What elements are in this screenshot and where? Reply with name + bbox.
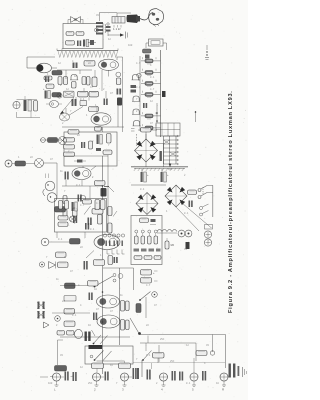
resistor R35 (94, 260, 105, 266)
wire stub a (65, 70, 67, 79)
resistor R39 (88, 281, 99, 287)
transistor Q42 (132, 96, 140, 101)
wire to jack (58, 340, 64, 365)
wire rail 186 (62, 185, 109, 188)
transistor Q43 (132, 109, 140, 114)
capacitor C75 (147, 363, 152, 380)
terminal marks under AC inlet (113, 27, 120, 31)
capacitor C1 (73, 63, 78, 69)
transistor Q7 (72, 166, 96, 180)
wire stub g (88, 97, 90, 101)
resistor R1 (52, 71, 62, 76)
wire stub p (89, 186, 91, 199)
terminal row (134, 249, 161, 252)
wire stub q (56, 232, 58, 238)
terminal end stub (243, 367, 247, 377)
resistor R9 (72, 99, 87, 106)
wire stub l (65, 108, 67, 113)
transistor Q12 (power) (97, 295, 120, 308)
mains wall plug P1 (149, 9, 164, 27)
transistor Q8 (80, 195, 85, 200)
tone board outline (55, 199, 107, 233)
wire out rail 2 (52, 312, 90, 314)
wire bridge diagonal feed 2 (176, 207, 199, 231)
bridge rectifier B1 (135, 139, 158, 162)
svg-text:0.1: 0.1 (136, 86, 141, 89)
transistor Q44 (133, 121, 141, 126)
wire stub m (82, 166, 84, 168)
wire stub o (65, 180, 67, 186)
switch S8 in box (90, 351, 111, 361)
transistor Q11 (41, 235, 120, 250)
fuse F1 (135, 230, 139, 244)
ground symbols (55, 381, 227, 387)
resistor R20 (73, 208, 78, 217)
capacitor C6 (81, 142, 85, 148)
wire stub c (94, 70, 96, 78)
capacitor C31 (145, 55, 150, 59)
resistor R24 (48, 138, 58, 143)
component value labels (noise) (18, 14, 219, 385)
svg-text:0.1: 0.1 (76, 184, 81, 187)
jack labels (54, 388, 225, 392)
resistor R62a (52, 93, 61, 98)
resistor R5 (82, 77, 90, 86)
capacitor C8 (electrolytic) (101, 186, 115, 197)
wire row top (97, 361, 226, 363)
resistor R19 (63, 196, 67, 218)
jack J12 (121, 373, 129, 381)
diode/resistor pair D41 R41 (141, 69, 161, 76)
svg-text:0.1: 0.1 (90, 228, 95, 231)
capacitor C79 (electrolytic) (229, 364, 240, 378)
switch S4 (130, 318, 141, 335)
wire run to outlet (140, 336, 196, 362)
label plate (89, 345, 103, 349)
svg-text:0.1: 0.1 (140, 188, 145, 191)
resistor R18 (95, 181, 106, 186)
capacitor C11 (electrolytic) (72, 202, 78, 211)
resistor R3 (44, 76, 52, 80)
resistor R17 (103, 150, 112, 155)
transistor Q5 (116, 72, 121, 94)
capacitor C51 (160, 151, 162, 161)
resistor R101 (66, 32, 74, 36)
capacitor C14 (84, 261, 88, 270)
wire PSU rail (131, 184, 166, 186)
wire stub n (81, 180, 83, 186)
capacitor C61 (136, 304, 141, 313)
lamp L3 (55, 316, 61, 322)
wire rail (57, 69, 92, 71)
capacitor C77 (179, 372, 183, 381)
svg-text:100: 100 (48, 382, 53, 385)
wire right bus 2 (118, 268, 123, 345)
jack J15 (220, 373, 228, 381)
transistor Q9 (43, 181, 55, 196)
diode D45 (131, 85, 137, 93)
capacitor C53 (electrolytic) (161, 169, 170, 182)
capacitor C10 (85, 223, 89, 230)
wire stub d (108, 70, 110, 77)
wire rail out (60, 285, 88, 287)
resistor R25 (15, 161, 26, 166)
svg-text:0.1: 0.1 (184, 212, 189, 215)
svg-text:2SC: 2SC (170, 360, 175, 363)
resistor R10 (89, 107, 99, 112)
transformer T1 windings (164, 135, 179, 165)
varistor blob (186, 242, 190, 249)
choke L1 (157, 230, 177, 234)
transistor Q13 (power) (97, 315, 120, 328)
wire bottom rail (60, 336, 130, 338)
wire bus mid (107, 155, 109, 232)
bus wire (ladder left rail) (139, 56, 141, 131)
bridge rectifier B2 (165, 185, 187, 207)
mains switch S1 (198, 186, 213, 199)
capacitor C76 (172, 371, 176, 381)
capacitor C22 (45, 77, 49, 83)
capacitor C3 (104, 99, 108, 106)
label marks (131, 129, 135, 132)
transistor Q14 (46, 101, 62, 108)
capacitor C72 (71, 372, 77, 381)
diode D1 (96, 148, 101, 151)
resistor R29 (101, 200, 106, 210)
wire input bus (27, 57, 55, 68)
speaker relay switch S7 (93, 335, 108, 344)
label marks R6x (154, 271, 158, 281)
capacitor C71 (65, 372, 69, 381)
bus wire (ladder right rail) (160, 50, 162, 137)
resistor R52 (188, 190, 197, 195)
resistor R51 (138, 128, 157, 133)
wire row mid (50, 376, 132, 379)
off-board connector stubs (205, 45, 209, 60)
wire stub s (102, 127, 104, 132)
zener ZD1 (137, 73, 141, 81)
diode D2 (74, 160, 86, 163)
resistor R37 (58, 262, 69, 268)
capacitor C52 (electrolytic) (141, 169, 150, 182)
junction blob (162, 91, 166, 97)
resistor R72 (92, 363, 104, 373)
potentiometer VR1 (60, 91, 74, 114)
resistor R74 (153, 353, 165, 364)
resistor R33 (70, 239, 81, 245)
wire stub r (84, 232, 86, 238)
wire right bus (212, 186, 214, 218)
wire stub b (79, 70, 81, 74)
capacitor C7 (65, 172, 69, 180)
capacitor C9 (78, 195, 82, 202)
wire stub i (75, 97, 77, 105)
pilot lamp pair (178, 230, 192, 237)
wire mid rail (62, 104, 124, 127)
transistor Q2 (99, 57, 123, 70)
jack J10 (53, 373, 61, 381)
relay RL1 (146, 39, 163, 48)
resistor R6 (92, 77, 97, 87)
connector header CN1 (96, 22, 107, 35)
svg-text:0.1: 0.1 (58, 238, 63, 241)
resistor R21 (92, 209, 103, 215)
switch arm (84, 206, 91, 215)
resistor R27 (59, 201, 69, 210)
wire stub f (101, 70, 103, 91)
resistor R22 (108, 207, 118, 217)
emitter resistors R44 R45 (37, 311, 45, 319)
trimmer VR3 (60, 113, 70, 121)
power cord plug body (127, 15, 141, 24)
svg-text:4.7: 4.7 (150, 88, 155, 91)
svg-text:0.1: 0.1 (146, 354, 151, 357)
wire ladder bottom drop (145, 131, 147, 140)
svg-text:0.1: 0.1 (186, 382, 191, 385)
wire bottom connect (40, 376, 48, 378)
terminal strip grid (156, 123, 180, 136)
svg-text:4.7: 4.7 (136, 62, 141, 65)
svg-text:100: 100 (168, 168, 173, 171)
diode D101 (88, 40, 96, 45)
driver board outline (64, 132, 117, 166)
capacitor C17 (electrolytic) (75, 329, 96, 341)
jack J14 (190, 373, 198, 381)
resistor R56 (134, 256, 161, 260)
resistor R4 (58, 77, 68, 85)
phone jack J2 (59, 137, 67, 145)
resistor R31 (143, 49, 152, 53)
diode/resistor pair D43 R43 (141, 91, 161, 98)
capacitor C20 (filter) (13, 101, 20, 108)
capacitor C15 (89, 293, 93, 301)
resistor ladder R12-R14 (64, 138, 75, 157)
capacitor C44 (143, 103, 147, 108)
capacitor C23 (43, 88, 50, 99)
speaker terminal box (85, 346, 133, 364)
emitter resistors R42 R43 (37, 302, 45, 310)
switch S2 (200, 204, 209, 216)
capacitor C74 (133, 368, 140, 379)
resistor R62 (141, 278, 152, 284)
wire CN1 to AC inlet (100, 13, 118, 22)
wire box bottom (64, 155, 108, 157)
svg-text:4.7: 4.7 (96, 202, 101, 205)
svg-text:2SC: 2SC (88, 382, 93, 385)
crystal/relay Y1 on box (68, 17, 83, 24)
resistor R61 (141, 270, 156, 276)
trimmer VR2 (57, 93, 62, 98)
resistor R71 (55, 366, 67, 372)
resistor R16 (89, 141, 93, 149)
capacitor C2b (72, 82, 77, 89)
svg-text:Figura 9.2 - Amplificatorul-pr: Figura 9.2 - Amplificatorul-preamplifica… (228, 90, 234, 313)
diode/resistor pair D40 R40 (141, 57, 161, 64)
capacitor C103 (83, 40, 89, 47)
svg-text:4.7: 4.7 (146, 284, 151, 287)
wire AC lead-in (117, 13, 131, 21)
edge connector strip CN2 (sawtooth) (57, 49, 118, 58)
transistor Q6 (output) (91, 113, 111, 131)
resistor R49 (57, 331, 74, 336)
resistor R2 (84, 61, 95, 67)
bridge rectifier B3 (136, 193, 158, 215)
wire B1 bottom (145, 162, 147, 167)
svg-text:100: 100 (128, 44, 133, 47)
wire stub k (122, 57, 124, 132)
jack J11 (93, 373, 101, 381)
resistor R102 (76, 32, 84, 36)
resistor R40 (64, 296, 76, 302)
module box U10 (63, 24, 103, 49)
connector CN5 pins (103, 234, 124, 254)
capacitor C12 (73, 216, 77, 224)
transistor Q41 (132, 75, 140, 80)
figure caption (228, 90, 234, 313)
switch lever (69, 107, 84, 116)
diode D4 (44, 322, 50, 328)
transformer T1 secondary lead (169, 164, 172, 168)
resistor R26 (55, 207, 66, 213)
ground bus (double line) (131, 167, 188, 171)
capacitor C21 (electrolytic) (24, 100, 32, 111)
label ticks (46, 174, 49, 179)
capacitor C4 (electrolytic) (117, 98, 122, 106)
resistor R30 (58, 216, 68, 227)
power cord cable (140, 13, 153, 20)
diode D55 (150, 219, 156, 225)
wire drop x142 (141, 360, 143, 377)
wire stub e (83, 88, 85, 92)
resistor R47 (121, 320, 130, 331)
diode D3 (49, 262, 56, 269)
wire stub h (105, 91, 107, 98)
svg-text:0.1: 0.1 (60, 210, 65, 213)
wire T1 feed (156, 103, 196, 123)
fuse F3 (148, 230, 152, 244)
diode/resistor pair D42 R42 (141, 80, 161, 87)
switch S3 with lamp (139, 292, 157, 301)
resistor R8 (89, 91, 99, 97)
capacitor C5 (97, 135, 103, 145)
dashed sense wire (136, 134, 138, 146)
resistor R41 (121, 301, 130, 312)
resistor R36 (108, 256, 118, 265)
wire bridge diagonal feed 1 (182, 203, 212, 228)
resistor R55 (140, 218, 149, 223)
wire long AC run (140, 335, 226, 369)
signal arrow to A (108, 32, 128, 39)
diode/resistor pair D45 R45 (141, 124, 161, 131)
diode/resistor pair D44 R44 (141, 112, 161, 119)
wire cap cluster bottom (17, 111, 41, 118)
transistor Q10 (47, 193, 57, 203)
resistor R63 (196, 351, 215, 356)
wire stub j (96, 106, 98, 113)
capacitor C16 (93, 313, 97, 321)
resistor R7 (78, 91, 89, 97)
fuse F2 (141, 230, 145, 244)
input jack J3 (5, 160, 15, 167)
jack J4 (26, 159, 57, 199)
wire net A (103, 268, 134, 290)
PSU board outline (131, 216, 162, 265)
zener stack D102 (106, 23, 111, 36)
pilot lamp (41, 138, 46, 143)
resistor R103 (66, 41, 75, 46)
thermistor TH1 (165, 238, 175, 249)
resistor R34 (56, 252, 67, 258)
fuse F4 (154, 230, 158, 244)
svg-text:2SC: 2SC (160, 338, 165, 341)
wire B1 right box (152, 144, 164, 168)
capacitor C54 (189, 201, 193, 208)
capacitor C78 (202, 371, 206, 381)
resistor R48 (64, 321, 75, 327)
lamp L2 (39, 262, 44, 267)
capacitor C102 (77, 41, 81, 47)
svg-text:4.7: 4.7 (80, 204, 85, 207)
svg-text:0.1: 0.1 (150, 76, 155, 79)
svg-text:4.7: 4.7 (100, 60, 105, 63)
svg-text:20: 20 (171, 243, 175, 247)
AC outlet socket (204, 225, 212, 247)
capacitor C101 (95, 28, 99, 33)
AC inlet connector J1 (112, 17, 125, 28)
switch arm 2 (86, 251, 94, 259)
svg-text:0.1: 0.1 (72, 314, 77, 317)
resistor R11 (68, 130, 79, 135)
transistor Q1 (37, 63, 58, 73)
resistor R73 (119, 363, 131, 369)
resistor R38 (65, 283, 76, 289)
capacitor C13 (88, 218, 92, 226)
capacitor C73 (105, 372, 109, 381)
resistor R46 (64, 309, 75, 315)
svg-text:0.1: 0.1 (80, 98, 85, 101)
resistor R28 (83, 200, 100, 210)
wire cap cluster top (17, 96, 38, 100)
speaker switch S6 (94, 274, 117, 288)
wire center bus (102, 156, 104, 374)
resistor R60 (34, 101, 38, 112)
jack J13 (160, 373, 168, 381)
transistor Q3 (70, 75, 78, 80)
wire feedback row (40, 139, 62, 141)
resistor R32 (98, 215, 103, 225)
resistor R15 (107, 134, 112, 144)
switch S5 (142, 343, 159, 362)
wire feed J14 (193, 358, 195, 373)
wire RL1 feed (163, 43, 167, 50)
wire drop (145, 297, 147, 318)
trimmer VR4 (70, 216, 76, 222)
resistor R61a (46, 84, 54, 89)
wire B1 top (145, 134, 147, 139)
resistor R23 (108, 223, 113, 233)
